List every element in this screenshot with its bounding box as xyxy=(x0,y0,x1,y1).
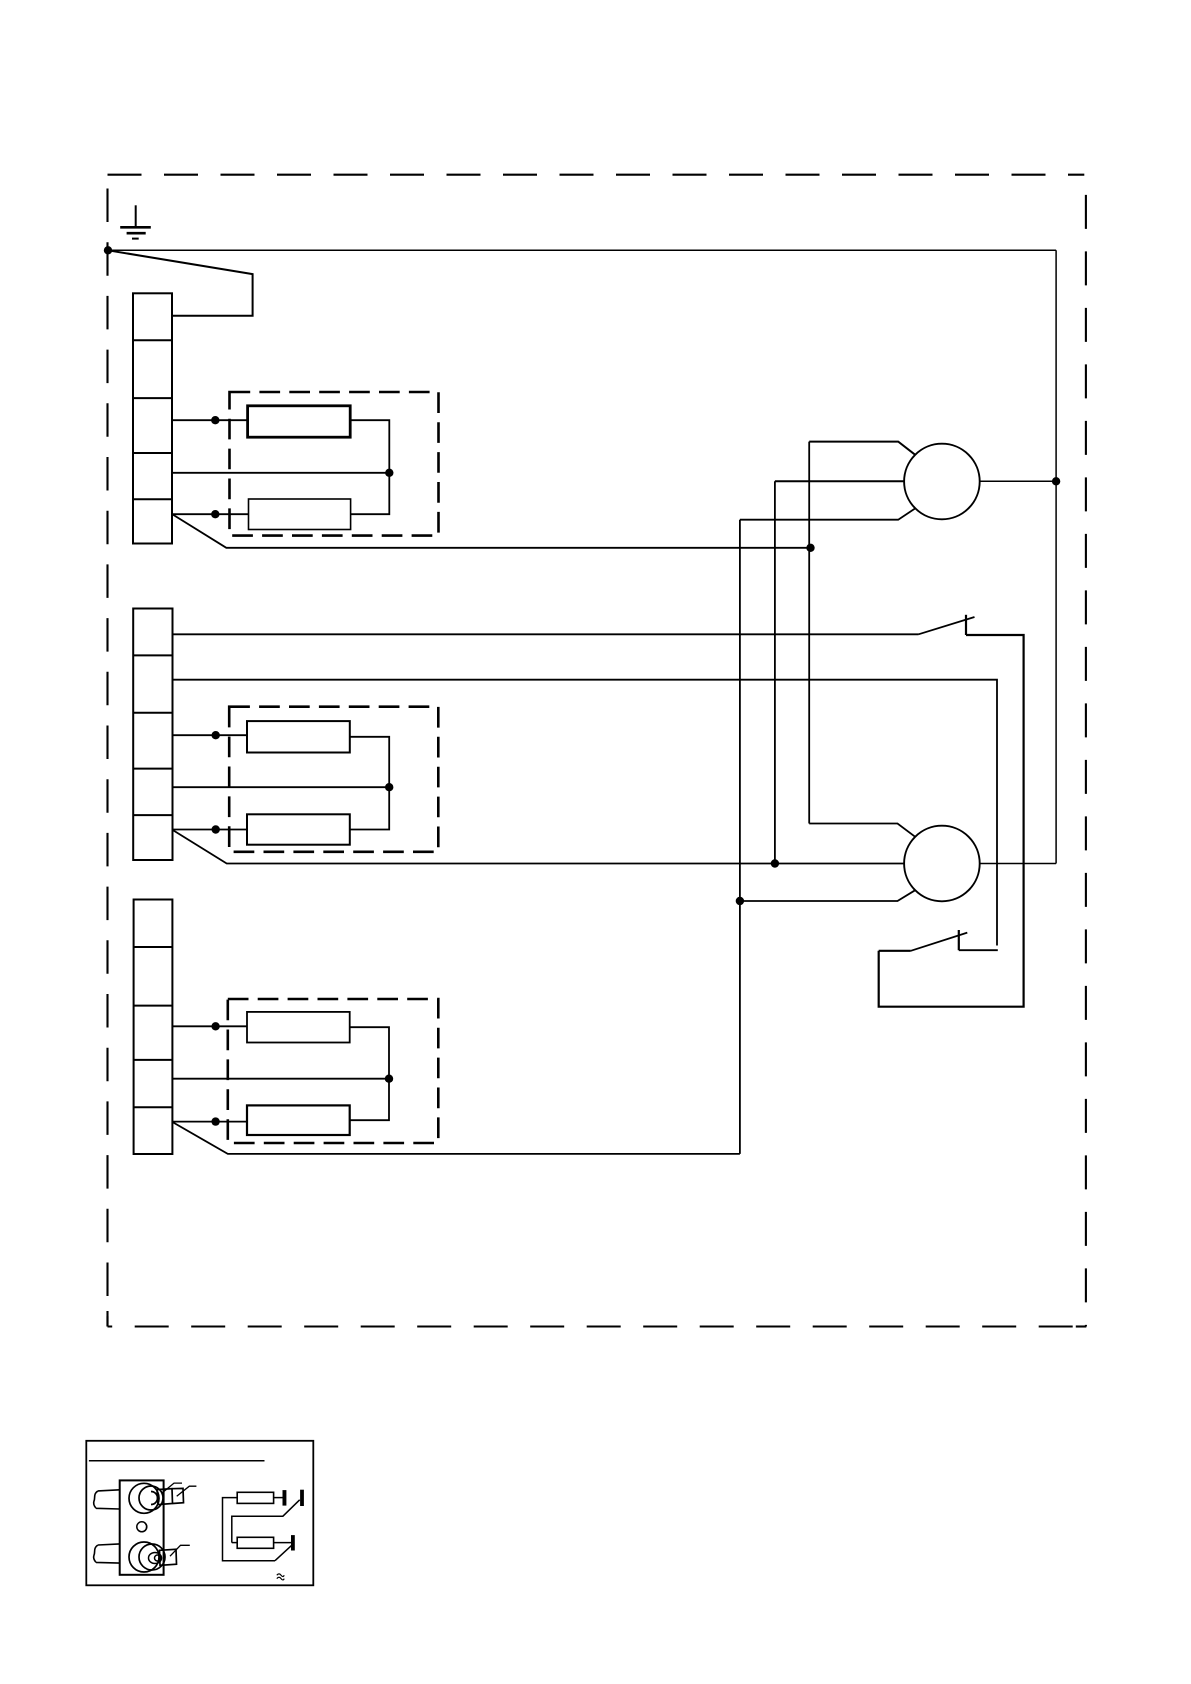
node motor M1 right junction dot xyxy=(1052,477,1060,485)
leader line lower xyxy=(170,1545,190,1556)
thermal fuse upper body xyxy=(129,1483,159,1513)
wire motor M1 top terminal xyxy=(809,442,915,455)
wire J3 pin4 to midpoint xyxy=(172,1078,389,1080)
switch S2 blade xyxy=(911,933,968,951)
mounting hole xyxy=(137,1522,147,1532)
wire J2 pin3 to resistor R3 xyxy=(173,734,248,736)
inset resistor Rb xyxy=(237,1537,273,1548)
contact bar B1 xyxy=(283,1490,287,1506)
connector J2 body xyxy=(133,609,172,861)
thermostat bracket plate xyxy=(120,1480,164,1574)
wire sleeve lower xyxy=(94,1544,120,1563)
node terminal dot J2 pin3 xyxy=(212,731,220,739)
connector J1 body xyxy=(133,293,172,543)
wire J2 pin2 to switch S2 contact xyxy=(173,680,998,946)
wire motor M2 top terminal xyxy=(809,824,915,837)
wire top ground bus horizontal xyxy=(108,249,1056,251)
switch S2 fixed contact xyxy=(958,930,960,950)
resistor R3 xyxy=(247,721,350,752)
resistor R5 xyxy=(247,1012,350,1043)
wire motor M1 right to bus xyxy=(980,480,1056,482)
wire J2 bottom bus to motor M2 xyxy=(173,830,905,864)
inset detail box xyxy=(86,1441,313,1586)
wire motor M2 right to bus xyxy=(980,863,1056,865)
wire J1 bottom bus to node A xyxy=(173,515,811,548)
node net3 junction dot xyxy=(736,897,744,905)
node terminal dot J3 pin5 xyxy=(211,1117,219,1125)
thermal fuse lower body xyxy=(129,1542,159,1572)
wire right bus vertical motor M1 to motor M2 xyxy=(1055,481,1057,863)
resistor R4 xyxy=(247,814,350,844)
dashed inner box heater H3 xyxy=(228,999,438,1143)
node terminal dot J2 pin5 xyxy=(212,825,220,833)
wire J1 pin4 to midpoint xyxy=(172,472,389,474)
wire R5 right to midpoint xyxy=(350,1027,389,1120)
connector J3 body xyxy=(134,900,173,1155)
motor M2 xyxy=(904,826,980,902)
node terminal dot J1 pin5 xyxy=(211,510,219,518)
terminal blade upper xyxy=(157,1488,184,1504)
wire J2 pin5 to resistor R4 xyxy=(173,829,248,831)
resistor R1 xyxy=(248,406,351,437)
terminal blade lower xyxy=(160,1549,177,1565)
wire Ra to contact xyxy=(274,1497,283,1499)
switch S1 fixed contact xyxy=(965,615,967,635)
wire J3 pin5 to resistor R6 xyxy=(172,1121,247,1123)
wire J1 pin3 to resistor R1 xyxy=(172,419,248,421)
dashed inner box heater H1 xyxy=(230,392,439,536)
switch blade Sa xyxy=(232,1500,300,1543)
wire J3 pin3 to resistor R5 xyxy=(172,1025,247,1027)
resistor R2 xyxy=(249,499,351,530)
wire motor M1 bottom terminal xyxy=(740,508,915,519)
switch S1 blade xyxy=(919,617,975,634)
wire switch S2 pivot xyxy=(879,950,911,952)
wire Rb to contact xyxy=(274,1542,291,1544)
wire R1 right to midpoint xyxy=(350,420,389,514)
wire right bus vertical down to motor M1 xyxy=(1055,250,1057,481)
node midpoint junction H3 xyxy=(385,1075,393,1083)
resistor R6 xyxy=(247,1105,350,1135)
node midpoint junction H2 xyxy=(385,783,393,791)
wire connector J1 pin1 to ground node xyxy=(108,250,253,315)
wire sleeve upper xyxy=(94,1490,120,1509)
outer enclosure bottom-right corner foot xyxy=(1076,1325,1087,1327)
wire R3 right to midpoint xyxy=(350,737,389,830)
wire motor M2 bottom terminal xyxy=(740,890,915,901)
wire vertical net3 motor bottoms xyxy=(739,520,741,1154)
switch blade Sb xyxy=(275,1545,292,1560)
node terminal dot J3 pin3 xyxy=(211,1022,219,1030)
node net2 junction dot xyxy=(771,859,779,867)
wire Rb left xyxy=(232,1542,237,1544)
wire vertical net1 motor tops xyxy=(808,442,810,824)
node ground junction dot xyxy=(104,246,112,254)
wire switch S1 out to switch S2 pivot xyxy=(879,635,1024,1007)
outer dashed enclosure right border xyxy=(1085,175,1087,1327)
inset resistor Ra xyxy=(237,1492,273,1503)
wire J2 pin1 to switch S1 xyxy=(173,633,919,635)
wire switch S2 contact out xyxy=(959,949,998,951)
wire J1 pin5 to resistor R2 xyxy=(172,513,249,515)
outer enclosure bottom-left corner anchor xyxy=(106,1311,108,1327)
wire J2 pin4 to midpoint xyxy=(173,786,390,788)
contact bar B2 xyxy=(300,1490,304,1506)
wire J3 bottom bus to net3 xyxy=(172,1122,740,1154)
inset schematic left bus xyxy=(223,1498,276,1561)
leader line upper 1 xyxy=(161,1483,182,1493)
leader line upper 2 xyxy=(177,1486,197,1496)
wire vertical net2 motor mids xyxy=(774,481,776,863)
dashed inner box heater H2 xyxy=(229,707,438,852)
outer dashed enclosure left border xyxy=(106,175,108,1327)
motor M1 xyxy=(904,444,980,520)
node midpoint junction H1 xyxy=(385,469,393,477)
contact bar B3 xyxy=(291,1535,295,1550)
approx symbol xyxy=(277,1574,284,1580)
inset header rule xyxy=(89,1460,265,1462)
ground symbol xyxy=(120,205,151,238)
node terminal dot J1 pin3 xyxy=(211,416,219,424)
wire motor M1 mid terminal xyxy=(775,480,904,482)
outer dashed enclosure bottom border xyxy=(108,1325,1087,1327)
outer dashed enclosure top border xyxy=(108,174,1085,176)
node A junction dot xyxy=(806,544,814,552)
